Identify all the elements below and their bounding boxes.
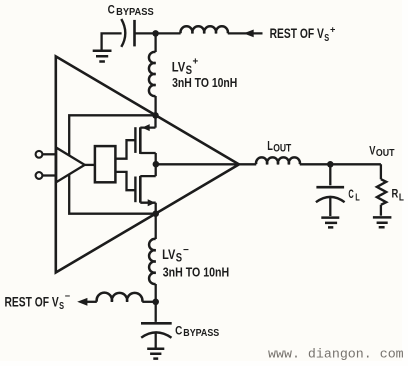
capacitor C_BYPASS top : ground-side wire [102, 33, 122, 49]
svg-text:L: L [355, 192, 360, 203]
wire LVS- to bottom node [155, 284, 157, 302]
svg-text:www. diangon. com: www. diangon. com [268, 346, 404, 361]
capacitor C_BYPASS top : right wire [135, 32, 156, 34]
node top C_BYPASS junction [152, 30, 159, 37]
transistor Q1 gate bar [134, 127, 136, 153]
transistor Q2 gate bar [134, 177, 136, 203]
inductor (bottom horizontal coil) [97, 293, 143, 302]
node V+ rail on triangle [152, 112, 159, 119]
wire inductor to triangle [154, 96, 156, 115]
svg-text:C: C [175, 323, 182, 337]
svg-text:REST OF V: REST OF V [270, 26, 325, 41]
ground (C_L) [321, 218, 339, 228]
wire bottom node left [142, 301, 155, 303]
node V- rail on triangle [152, 210, 159, 217]
inductor LVS- [149, 239, 156, 284]
transistor Q2 leads [140, 164, 155, 215]
inductor (top horizontal coil) [181, 26, 228, 33]
wire R_L to ground [380, 205, 382, 216]
wire triangle apex to box [85, 164, 95, 166]
svg-text:L: L [267, 138, 273, 153]
transistor Q1 channel bar [139, 127, 142, 154]
svg-text:BYPASS: BYPASS [183, 328, 219, 339]
node V_OUT junction [327, 161, 334, 168]
wire coil to arrow (bottom) [87, 301, 97, 303]
wire gate drive upper [115, 140, 135, 159]
svg-text:C: C [108, 2, 115, 16]
input terminal circle (+) [36, 151, 43, 158]
svg-text:BYPASS: BYPASS [116, 7, 154, 18]
svg-text:S: S [176, 251, 182, 265]
op-amp U1 (main triangle) [56, 56, 239, 272]
svg-text:S: S [59, 301, 64, 312]
capacitor C_BYPASS bottom : straight plate [141, 322, 172, 325]
wire top junction down [154, 33, 156, 52]
capacitor C_L : top wire [329, 164, 331, 185]
capacitor C_L : straight plate [316, 186, 344, 189]
svg-text:LV: LV [162, 247, 175, 262]
wire coil to label [228, 32, 263, 34]
svg-text:C: C [348, 187, 354, 201]
svg-text:OUT: OUT [273, 142, 291, 154]
svg-text:LV: LV [172, 60, 186, 75]
capacitor C_BYPASS bottom : curved plate [141, 332, 171, 337]
svg-text:REST OF V: REST OF V [5, 294, 60, 309]
bias box [95, 146, 116, 182]
svg-text:3nH TO 10nH: 3nH TO 10nH [172, 75, 237, 90]
capacitor C_BYPASS top : straight plate [133, 20, 136, 47]
wire L_OUT to corner [300, 164, 381, 179]
ground (R_L) [373, 217, 392, 227]
capacitor C_BYPASS bottom : lower wire [155, 332, 157, 347]
ground (bottom C_BYPASS) [147, 349, 164, 359]
wire + inductor to REST OF VS+ [156, 32, 181, 34]
capacitor C_L : lower wire [329, 197, 331, 216]
svg-text:S: S [324, 33, 329, 44]
svg-text:L: L [399, 193, 404, 204]
svg-text:+: + [193, 57, 199, 68]
wire input top [43, 153, 57, 155]
transistor Q1 source lead [140, 114, 155, 164]
capacitor C_BYPASS top : curved plate [121, 19, 125, 47]
capacitor C_L : curved plate [316, 197, 345, 202]
arrowhead top (REST OF VS+) [244, 30, 254, 38]
svg-text:3nH TO 10nH: 3nH TO 10nH [163, 264, 230, 279]
inductor L_OUT [256, 157, 300, 164]
arrowhead Q2 source [148, 199, 156, 206]
wire output rail [156, 163, 256, 165]
arrowhead Q1 source [142, 124, 150, 131]
resistor R_L [377, 179, 386, 205]
node output stage [153, 161, 160, 168]
node bottom C_BYPASS junction [152, 299, 159, 306]
wire bottom node to C_BYPASS [155, 302, 157, 322]
svg-text:R: R [392, 187, 399, 201]
input stage triangle [56, 148, 84, 183]
ground (top C_BYPASS) [93, 51, 112, 62]
svg-text:−: − [65, 291, 71, 301]
svg-text:OUT: OUT [376, 148, 395, 159]
input terminal circle (-) [36, 172, 43, 179]
arrowhead bottom (REST OF VS-) [77, 298, 87, 306]
svg-text:−: − [183, 245, 189, 256]
inner rail U-loop wire [69, 115, 156, 213]
transistor Q2 channel bar [139, 176, 142, 203]
inductor LVS+ [149, 52, 156, 96]
wire bottom junction to LVS- [155, 214, 157, 239]
svg-text:+: + [330, 24, 335, 34]
wire gate drive lower [115, 172, 135, 190]
wire input bottom [43, 174, 57, 176]
